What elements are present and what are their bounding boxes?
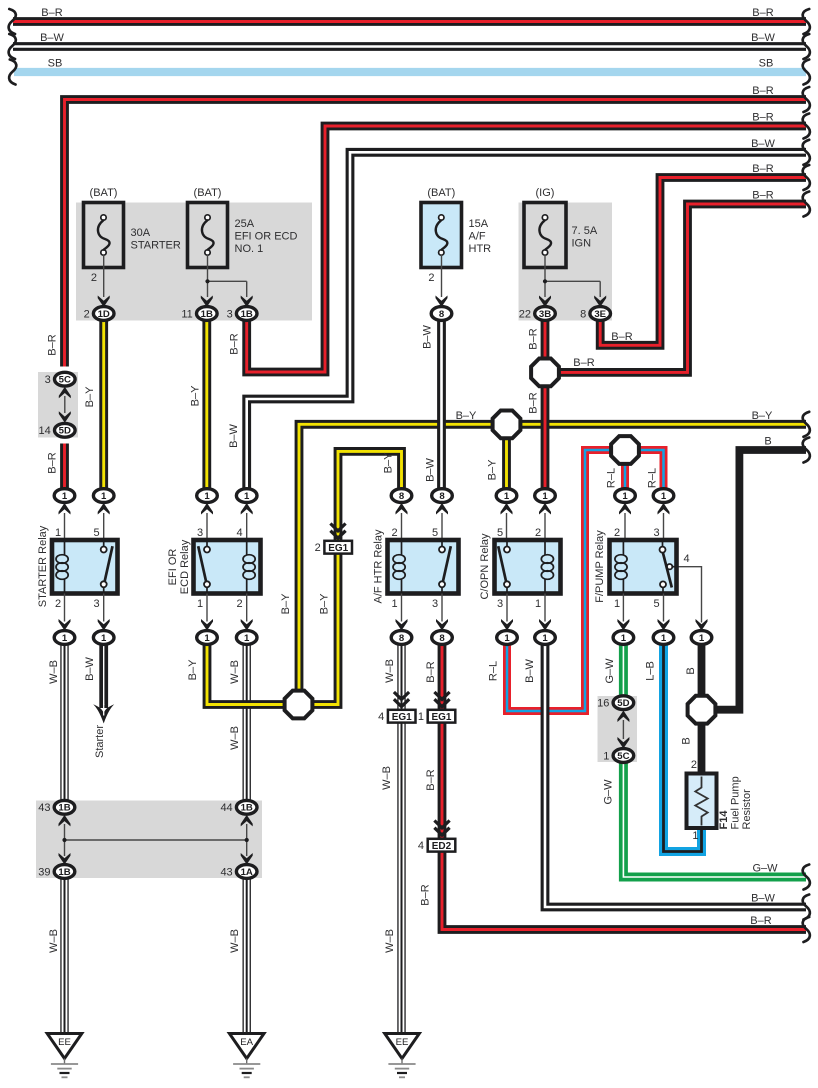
- svg-text:2: 2: [236, 598, 242, 610]
- label A/F pin 2: [391, 527, 397, 539]
- svg-text:SB: SB: [759, 58, 774, 70]
- lead connector to relay pin at x=442: [441, 513, 443, 538]
- label C/OPN pin 2: [535, 527, 541, 539]
- gray panel behind connectors 5D/5C right: [598, 696, 638, 762]
- label W-B starter ground upper: [48, 660, 60, 684]
- label 7.5A IGN: [572, 225, 598, 250]
- svg-text:1: 1: [391, 598, 397, 610]
- svg-text:STARTER: STARTER: [131, 240, 181, 252]
- lead connector to relay pin at x=103.7: [103, 513, 105, 538]
- relay-row upper connector 1 at x=103.7: [93, 489, 114, 503]
- connector 5C pin 3: [45, 372, 75, 386]
- svg-text:Starter: Starter: [94, 725, 106, 758]
- arrow into 1B(3): [241, 296, 253, 308]
- svg-text:EE: EE: [58, 1037, 71, 1048]
- svg-text:2: 2: [84, 308, 90, 320]
- svg-text:1: 1: [204, 633, 210, 644]
- label B-W above EFI relay pin4: [228, 423, 240, 447]
- label B-R af mid: [425, 769, 437, 790]
- wire G-W connector 5C to right edge: [623, 762, 806, 877]
- label SB bus3 left: [48, 58, 63, 70]
- svg-text:SB: SB: [48, 58, 63, 70]
- svg-text:B–W: B–W: [751, 138, 775, 150]
- arrow up into 1B(43): [59, 815, 71, 827]
- svg-text:B: B: [764, 436, 771, 448]
- svg-text:8: 8: [399, 633, 405, 644]
- svg-text:5C: 5C: [59, 375, 71, 386]
- svg-text:3B: 3B: [539, 309, 551, 320]
- svg-text:W–B: W–B: [229, 660, 241, 684]
- label F/PUMP pin 4: [684, 553, 690, 565]
- arrow up into connector at x=207: [201, 503, 213, 515]
- svg-text:1: 1: [101, 491, 107, 502]
- svg-text:2: 2: [391, 527, 397, 539]
- label EFI pin 2: [236, 598, 242, 610]
- lead connector to relay pin at x=207: [206, 513, 208, 538]
- relay-row lower connector 1 at x=507: [497, 631, 518, 645]
- svg-text:B–R: B–R: [47, 452, 59, 473]
- svg-text:EFI OR ECD: EFI OR ECD: [235, 231, 298, 243]
- lead connector to relay pin at x=64.5: [64, 513, 66, 538]
- svg-text:1: 1: [244, 491, 250, 502]
- connector 1A pin 43: [220, 865, 257, 879]
- wire B-W A/F fuse to A/F relay pin 5: [437, 321, 446, 490]
- relay EFI coil: [243, 540, 255, 594]
- ground point EG1 pin 1: [418, 710, 455, 723]
- svg-text:5: 5: [93, 527, 99, 539]
- label B above resistor: [681, 737, 693, 744]
- label B-W below A/F fuse: [422, 324, 434, 348]
- svg-text:1: 1: [603, 750, 609, 762]
- svg-text:1B: 1B: [58, 867, 70, 878]
- label W-B efi ground lower: [229, 929, 241, 953]
- fuse 7.5A IGN box: [524, 203, 566, 268]
- relay-row lower connector 1 at x=246.7: [236, 631, 257, 645]
- label STARTER pin 1: [55, 527, 61, 539]
- label A/F pin 1: [391, 598, 397, 610]
- connector 5D pin 14: [39, 423, 76, 437]
- relay-row lower connector 1 at x=103.7: [93, 631, 114, 645]
- label STARTER pin 2: [55, 598, 61, 610]
- svg-text:1: 1: [661, 633, 667, 644]
- squiggle right end bus 12: [803, 895, 810, 920]
- lead between 5C and 5D: [64, 396, 66, 413]
- label C/OPN pin 3: [497, 598, 503, 610]
- svg-text:B–W: B–W: [422, 324, 434, 348]
- connector 1B pin 44: [220, 800, 257, 814]
- svg-text:EG1: EG1: [392, 712, 412, 723]
- wire B junction to resistor pin 2: [698, 723, 706, 774]
- squiggle right end bus 11: [803, 865, 810, 890]
- svg-text:1: 1: [504, 491, 510, 502]
- relay EFI switch: [198, 540, 210, 594]
- svg-text:2: 2: [535, 527, 541, 539]
- label B-R bus1 right: [752, 7, 773, 19]
- svg-text:B–R: B–R: [611, 331, 632, 343]
- svg-text:1A: 1A: [241, 867, 253, 878]
- gray panel behind connectors 5C/5D left: [38, 372, 78, 438]
- label G-W bus11 right: [752, 863, 778, 875]
- label B-R af lower: [420, 884, 432, 905]
- svg-text:4: 4: [684, 553, 690, 565]
- label B below pin4 connector: [685, 667, 697, 674]
- label B-R above 5C: [47, 334, 59, 355]
- svg-text:B–W: B–W: [751, 32, 775, 44]
- squiggle right end bus 7: [803, 165, 810, 190]
- fuse1 pin lead: [103, 255, 105, 297]
- svg-text:1: 1: [621, 633, 627, 644]
- relay-row lower connector 8 at x=442: [432, 631, 453, 645]
- arrow down into lower connector at x=623.4: [617, 619, 629, 631]
- svg-text:1B: 1B: [241, 803, 253, 814]
- relay STARTER coil: [56, 540, 68, 594]
- wire R-L junction to F/PUMP relay pin 3: [639, 450, 664, 489]
- svg-text:G–W: G–W: [752, 863, 778, 875]
- svg-text:2: 2: [691, 759, 697, 771]
- label EFI OR ECD Relay: [167, 539, 191, 594]
- squiggle right end bus 4: [803, 87, 810, 112]
- arrow up into connector at x=506.5: [501, 503, 513, 515]
- label (BAT) fuse1: [90, 187, 118, 199]
- label F/PUMP pin 5: [653, 598, 659, 610]
- gray panel behind IGN fuse: [519, 203, 613, 321]
- fuse 15A element: [436, 215, 448, 255]
- label B-Y left drop: [280, 593, 292, 614]
- lead relay pin to lower connector at x=507: [506, 594, 508, 622]
- svg-text:(BAT): (BAT): [90, 187, 118, 199]
- svg-text:2: 2: [428, 272, 434, 284]
- svg-text:B–W: B–W: [751, 893, 775, 905]
- label fuse3 pin 2: [428, 272, 434, 284]
- label 15A A/F HTR: [469, 218, 492, 255]
- svg-text:5C: 5C: [617, 751, 629, 762]
- svg-text:3E: 3E: [594, 309, 606, 320]
- relay-row upper connector 8 at x=401.5: [391, 489, 412, 503]
- fuse 25A element: [202, 215, 214, 255]
- label B-R bus7 right: [752, 163, 773, 175]
- fuse3 pin lead: [441, 255, 443, 297]
- label 25A EFI OR ECD NO. 1: [235, 218, 298, 255]
- connector 1B pin 43: [38, 800, 75, 814]
- label B-Y below 1D: [84, 386, 96, 407]
- svg-text:8: 8: [399, 491, 405, 502]
- label 30A STARTER: [131, 227, 181, 252]
- wire W-B STARTER relay pin 2 to connector 1B(43): [60, 644, 68, 801]
- label B-Y EG1 drop: [319, 593, 331, 614]
- label B-R bus5 right: [752, 112, 773, 124]
- label B-W to starter: [84, 656, 96, 680]
- lead relay pin to lower connector at x=623.4: [622, 594, 624, 622]
- svg-text:1B: 1B: [201, 309, 213, 320]
- svg-text:44: 44: [220, 802, 232, 814]
- wire B-R bus 7 from connector 3E: [600, 178, 806, 346]
- lead connector to relay pin at x=401.5: [401, 513, 403, 538]
- lead relay pin to lower connector at x=207: [206, 594, 208, 622]
- arrow up into 1B(44): [241, 815, 253, 827]
- arrow down into lower connector at x=701.5: [696, 619, 708, 631]
- fuse4 pin lead and branch: [545, 255, 600, 297]
- relay-row lower connector 8 at x=401.5: [391, 631, 412, 645]
- lead between 5D and 5C right: [622, 720, 624, 739]
- svg-text:2: 2: [55, 598, 61, 610]
- label STARTER pin 5: [93, 527, 99, 539]
- squiggle left end bus 3: [9, 60, 16, 85]
- svg-text:B–R: B–R: [228, 333, 240, 354]
- wire W-B A/F relay pin 1 to ground EE via EG1: [397, 644, 405, 1034]
- svg-text:1: 1: [504, 633, 510, 644]
- fuse 15A A/F HTR box: [421, 203, 462, 268]
- lead relay pin to lower connector at x=246.7: [246, 594, 248, 622]
- junction octagon B fuel pump: [688, 696, 716, 724]
- label C/OPN Relay: [479, 533, 491, 600]
- svg-text:B–Y: B–Y: [752, 410, 773, 422]
- label B-R on bus8 branch: [573, 357, 594, 369]
- relay-row upper connector 1 at x=64.5: [54, 489, 75, 503]
- relay-row upper connector 8 at x=442: [432, 489, 453, 503]
- wire R-L C/OPN relay pin 3 to junction octagon: [507, 450, 612, 711]
- label (BAT) fuse2: [194, 187, 222, 199]
- wire B-R bus 5 from connector 1B pin 3: [247, 126, 806, 372]
- connector 1B pin 11: [181, 307, 217, 321]
- lead relay pin to lower connector at x=663.5: [663, 594, 665, 622]
- label R-L above F/PUMP pin2: [606, 468, 618, 488]
- svg-text:B–R: B–R: [752, 163, 773, 175]
- svg-text:1: 1: [542, 491, 548, 502]
- lead connector to relay pin at x=545: [544, 513, 546, 538]
- relay C/OPN box: [495, 540, 561, 594]
- squiggle right end bus 3: [803, 60, 810, 85]
- label A/F HTR Relay: [373, 529, 385, 603]
- svg-text:ED2: ED2: [432, 841, 452, 852]
- svg-text:(BAT): (BAT): [427, 187, 455, 199]
- svg-text:STARTER Relay: STARTER Relay: [37, 525, 49, 607]
- svg-text:Resistor: Resistor: [741, 789, 753, 830]
- svg-text:B–Y: B–Y: [456, 410, 477, 422]
- label R-L above F/PUMP pin3: [647, 468, 659, 488]
- resistor F14 box: [687, 774, 717, 829]
- label W-B efi ground mid: [229, 726, 241, 750]
- relay C/OPN switch: [498, 540, 510, 594]
- squiggle right end bus 2: [803, 34, 810, 59]
- junction dot fuse4 branch: [543, 279, 547, 283]
- junction dot fuse2 branch: [205, 279, 209, 283]
- svg-text:B–R: B–R: [47, 334, 59, 355]
- label W-B starter ground lower: [48, 929, 60, 953]
- svg-text:B–W: B–W: [425, 457, 437, 481]
- wire B-Y connector 1B(11) to EFI relay pin 3: [202, 321, 211, 490]
- arrow into 1D: [98, 296, 110, 308]
- fuse 30A STARTER box: [84, 203, 124, 268]
- svg-text:B–R: B–R: [752, 112, 773, 124]
- chevron arrows into EG1(2): [330, 524, 345, 539]
- label B-W above A/F relay pin5: [425, 457, 437, 481]
- svg-text:1: 1: [197, 598, 203, 610]
- squiggle right end bus 13: [803, 917, 810, 942]
- arrow up into connector at x=103.7: [98, 503, 110, 515]
- arrow down into lower connector at x=663.5: [658, 619, 670, 631]
- label B-Y bus9 left: [456, 410, 477, 422]
- junction dot left: [62, 838, 66, 842]
- svg-text:W–B: W–B: [381, 766, 393, 790]
- label resistor pin 1: [692, 830, 698, 842]
- svg-text:1: 1: [244, 633, 250, 644]
- chevron arrows into EG1(4): [394, 692, 409, 707]
- lead connector to relay pin at x=246.7: [246, 513, 248, 538]
- wire B-R bus 8 from junction octagon: [559, 204, 806, 372]
- lead connector to relay pin at x=625: [624, 513, 626, 538]
- svg-text:8: 8: [580, 308, 586, 320]
- junction block internal wires: [65, 824, 247, 856]
- svg-text:B–R: B–R: [573, 357, 594, 369]
- relay STARTER box: [52, 540, 118, 594]
- starter feed arrowhead: [93, 704, 114, 724]
- label B-R af upper: [425, 661, 437, 682]
- svg-text:14: 14: [39, 425, 51, 437]
- label G-W below F/PUMP pin1: [604, 658, 616, 684]
- label B-R bus1 left: [41, 7, 62, 19]
- svg-text:11: 11: [181, 308, 192, 320]
- relay-row upper connector 1 at x=545: [535, 489, 556, 503]
- wire B-W bus 2: [13, 42, 806, 51]
- relay-row upper connector 1 at x=207: [197, 489, 218, 503]
- label B-R on 3E branch: [611, 331, 632, 343]
- svg-text:5: 5: [432, 527, 438, 539]
- label (BAT) fuse3: [427, 187, 455, 199]
- wire B-R A/F relay pin 3 via EG1(1), ED2(4) to right edge: [442, 644, 806, 930]
- svg-text:1D: 1D: [98, 309, 110, 320]
- wire B-Y junction to EG1(2) and A/F HTR relay pin 2: [312, 451, 402, 704]
- chevron arrows into ED2(4): [434, 821, 449, 836]
- arrow up into connector at x=64.5: [59, 503, 71, 515]
- svg-text:2: 2: [91, 272, 97, 284]
- label EFI pin 4: [236, 527, 242, 539]
- wire W-B connector 1B(39) to ground EE: [60, 878, 68, 1034]
- svg-text:R–L: R–L: [647, 468, 659, 488]
- svg-text:5D: 5D: [59, 426, 71, 437]
- svg-text:B–Y: B–Y: [280, 593, 292, 614]
- wire B-W C/OPN relay pin 1 to right edge: [545, 644, 806, 907]
- wire B-R bus 4 to node 5C column: [65, 100, 807, 367]
- arrow into 3E: [594, 296, 606, 308]
- fuse 30A STARTER element: [98, 215, 110, 255]
- svg-text:1: 1: [535, 598, 541, 610]
- relay STARTER switch: [101, 540, 113, 594]
- arrow into 8 connector: [436, 296, 448, 308]
- svg-text:B–R: B–R: [752, 85, 773, 97]
- svg-text:4: 4: [236, 527, 242, 539]
- svg-text:C/OPN Relay: C/OPN Relay: [479, 533, 491, 600]
- svg-text:B–R: B–R: [528, 392, 540, 413]
- svg-text:W–B: W–B: [48, 660, 60, 684]
- label B-W below C/OPN pin1: [524, 658, 536, 682]
- chevron arrows into EG1(1): [434, 692, 449, 707]
- svg-text:4: 4: [418, 840, 424, 852]
- wire B-Y EFI relay pin 1 to junction: [207, 644, 285, 705]
- label EFI pin 1: [197, 598, 203, 610]
- svg-text:8: 8: [439, 309, 445, 320]
- arrow down into 1A(43): [241, 853, 253, 865]
- svg-text:B–W: B–W: [40, 32, 64, 44]
- wire W-B EFI relay pin 2 to connector 1B(44): [242, 644, 250, 801]
- lead relay pin to lower connector at x=442: [441, 594, 443, 622]
- label A/F pin 5: [432, 527, 438, 539]
- arrow up into 5C: [59, 387, 71, 399]
- svg-text:W–B: W–B: [48, 929, 60, 953]
- svg-text:W–B: W–B: [229, 726, 241, 750]
- wire B-R connector 5D to STARTER relay pin 1: [60, 444, 69, 490]
- svg-text:EG1: EG1: [431, 712, 451, 723]
- wire G-W F/PUMP relay pin 1 to connector 5D: [619, 644, 628, 697]
- svg-text:B–R: B–R: [425, 661, 437, 682]
- svg-text:3: 3: [93, 598, 99, 610]
- ground EA: [229, 1034, 264, 1078]
- lead relay pin to lower connector at x=64.5: [64, 594, 66, 622]
- svg-text:5: 5: [653, 598, 659, 610]
- junction octagon B-Y bus: [493, 411, 521, 439]
- arrow down into 5D: [59, 411, 71, 423]
- svg-text:5D: 5D: [617, 698, 629, 709]
- svg-text:B–R: B–R: [420, 884, 432, 905]
- fuse 7.5A element: [539, 215, 551, 255]
- ground EE right: [385, 1034, 420, 1078]
- squiggle left end bus 1: [9, 9, 16, 34]
- arrow down into lower connector at x=401.5: [396, 619, 408, 631]
- arrow up into connector at x=625: [619, 503, 631, 515]
- svg-text:1: 1: [542, 633, 548, 644]
- connector 3E pin 8: [580, 307, 610, 321]
- label W-B af ground upper: [384, 659, 396, 683]
- svg-text:B–Y: B–Y: [487, 459, 499, 480]
- relay-row upper connector 1 at x=625: [615, 489, 636, 503]
- svg-text:16: 16: [597, 698, 609, 710]
- gray panel junction box lower left: [36, 801, 262, 879]
- svg-text:1: 1: [418, 711, 424, 723]
- arrow down into lower connector at x=246.7: [241, 619, 253, 631]
- wire B-Y bus 9: [299, 424, 806, 691]
- lead connector to relay pin at x=663.5: [663, 513, 665, 538]
- svg-text:F/PUMP Relay: F/PUMP Relay: [594, 530, 606, 603]
- label W-B af ground mid: [381, 766, 393, 790]
- svg-text:B: B: [685, 667, 697, 674]
- label SB bus3 right: [759, 58, 774, 70]
- label B-Y below 1B(11): [190, 385, 202, 406]
- svg-text:2: 2: [315, 542, 321, 554]
- svg-text:F14: F14: [718, 810, 730, 830]
- svg-text:B–W: B–W: [524, 658, 536, 682]
- relay F/PUMP switch: [660, 540, 677, 594]
- arrow up into connector at x=545: [539, 503, 551, 515]
- label (IG) fuse4: [536, 187, 555, 199]
- label B-R bus8 right: [752, 190, 773, 202]
- squiggle left end bus 2: [9, 34, 16, 59]
- relay F/PUMP box: [610, 540, 677, 594]
- relay-row lower connector 1 at x=207: [197, 631, 218, 645]
- svg-text:30A: 30A: [131, 227, 151, 239]
- label B-Y below EFI relay pin1: [187, 659, 199, 680]
- svg-text:B–Y: B–Y: [190, 385, 202, 406]
- arrow up into connector at x=401.5: [396, 503, 408, 515]
- label B-R below 1B(3): [228, 333, 240, 354]
- squiggle right end bus 6: [803, 140, 810, 165]
- squiggle right end bus 8: [803, 192, 810, 217]
- label F/PUMP pin 3: [653, 527, 659, 539]
- svg-text:1: 1: [62, 633, 68, 644]
- connector 5D pin 16: [597, 696, 634, 710]
- svg-text:A/F HTR Relay: A/F HTR Relay: [373, 529, 385, 603]
- svg-text:ECD Relay: ECD Relay: [179, 539, 191, 594]
- label W-B af ground lower: [384, 929, 396, 953]
- label F/PUMP pin 1: [614, 598, 620, 610]
